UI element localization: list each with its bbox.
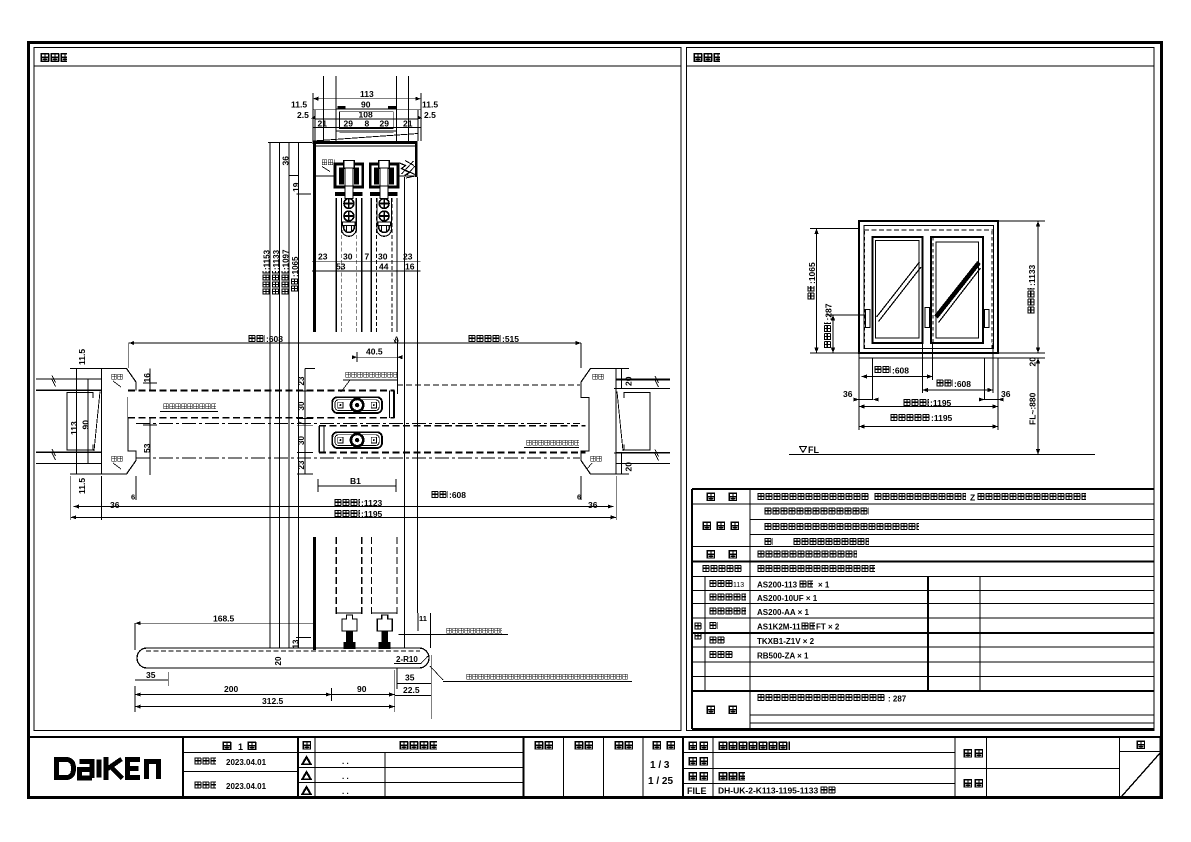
hinban row4: tobira xyxy=(709,622,840,632)
svg-text:1: 1 xyxy=(238,742,243,752)
bottom dim tobira 608 right xyxy=(431,490,466,500)
svg-text:DH-UK-2-K113-1195-1133: DH-UK-2-K113-1195-1133 xyxy=(718,786,818,796)
right jamb body xyxy=(581,369,616,475)
dim 168.5 xyxy=(135,614,313,651)
sanmenzu text xyxy=(718,772,745,781)
svg-text:6: 6 xyxy=(577,493,581,502)
door2 screw channel xyxy=(377,198,392,236)
head frame bottom edges xyxy=(316,175,415,177)
guide pin 2 xyxy=(377,615,392,649)
dim madotaka 1065 xyxy=(807,229,819,354)
svg-text:53: 53 xyxy=(142,443,152,453)
svg-text:× 1: × 1 xyxy=(818,581,830,590)
kaitei rireki header xyxy=(399,741,437,750)
extension lines right xyxy=(998,221,1045,358)
counter edge line below window xyxy=(859,357,998,359)
svg-text:53: 53 xyxy=(336,262,346,272)
right roller assembly xyxy=(370,161,398,188)
seitei-bi 2023.04.01 xyxy=(194,757,267,767)
dim 108 xyxy=(315,110,418,142)
right dims 20 20 xyxy=(614,369,634,475)
svg-text::1133: :1133 xyxy=(272,249,281,270)
gaiho-taka 1133 label xyxy=(272,249,282,295)
svg-text:11.5: 11.5 xyxy=(422,100,438,110)
svg-text:Z: Z xyxy=(970,493,975,503)
counter content xyxy=(757,565,875,574)
svg-text:2023.04.01: 2023.04.01 xyxy=(226,758,267,767)
svg-text:16: 16 xyxy=(142,373,152,383)
upper track dashed continuation xyxy=(397,384,580,386)
counter slab xyxy=(137,648,429,668)
dim 13 xyxy=(292,637,312,648)
left wall stud xyxy=(67,392,100,452)
svg-text:11.5: 11.5 xyxy=(291,100,307,110)
left door glazing diagonals xyxy=(877,262,922,322)
keishiki content xyxy=(757,493,869,501)
kenzu header xyxy=(574,741,593,750)
row: counter label xyxy=(702,565,742,574)
svg-text::1195: :1195 xyxy=(930,398,952,408)
totte content xyxy=(757,550,857,559)
dim 35 left xyxy=(135,670,168,686)
svg-text:36: 36 xyxy=(1001,389,1011,399)
dim 11.5 labels xyxy=(291,100,438,110)
svg-text:AS200-AA × 1: AS200-AA × 1 xyxy=(757,608,810,617)
svg-text:35: 35 xyxy=(405,673,415,683)
svg-text:21: 21 xyxy=(403,119,413,129)
right door xyxy=(931,237,983,343)
zumei label xyxy=(688,772,708,781)
svg-text::515: :515 xyxy=(502,334,519,344)
svg-text:20: 20 xyxy=(1028,357,1038,367)
track centerline dash-dot xyxy=(136,422,580,424)
left jamb body xyxy=(102,369,137,475)
lower strip door dashes xyxy=(336,537,397,615)
dim 22.5 xyxy=(395,655,432,719)
top wall lines right pair xyxy=(397,76,409,142)
svg-text:30: 30 xyxy=(343,252,353,262)
svg-text:23: 23 xyxy=(318,252,328,262)
vertical thickness dim line xyxy=(297,369,315,475)
row: totte label xyxy=(706,550,737,559)
dim 11 guide xyxy=(418,613,431,648)
hinban row6: akarichigai xyxy=(709,651,809,661)
svg-text:A: A xyxy=(394,337,399,344)
svg-text::608: :608 xyxy=(892,366,909,376)
door1 verticals upper xyxy=(336,198,362,332)
frame right head edge xyxy=(415,142,418,177)
2-R10 label xyxy=(394,655,428,664)
A-men leader label xyxy=(341,337,399,393)
svg-text::1065: :1065 xyxy=(807,262,817,284)
title block outer xyxy=(27,737,1162,798)
right wall stud xyxy=(617,392,650,452)
bikou label xyxy=(706,705,737,714)
svg-text::1153: :1153 xyxy=(263,249,272,270)
dim 90 bottom xyxy=(331,684,394,701)
lower lock plate xyxy=(332,432,382,448)
left door xyxy=(865,231,992,348)
svg-text:FT × 2: FT × 2 xyxy=(816,623,840,632)
dim tobira-haba 608 right xyxy=(923,379,994,392)
svg-text:30: 30 xyxy=(378,252,388,262)
svg-text:. .: . . xyxy=(342,757,349,766)
svg-text:2-R10: 2-R10 xyxy=(396,655,418,664)
svg-text:312.5: 312.5 xyxy=(262,696,284,706)
door2 top cap xyxy=(370,186,398,199)
extension lines left xyxy=(810,229,866,354)
svg-text:13: 13 xyxy=(292,639,301,648)
hinban row1: koteiwaku 113 xyxy=(709,580,830,590)
5tPP cap label lower xyxy=(524,440,579,448)
left jamb dims 11.5 113 90 xyxy=(69,349,101,494)
kenmei label xyxy=(963,749,983,758)
han column header xyxy=(302,741,311,750)
hinban label xyxy=(688,757,708,766)
dim 200 xyxy=(135,684,331,697)
dim wakugai-haba 1195 xyxy=(71,509,617,519)
svg-text:2.5: 2.5 xyxy=(297,110,309,120)
right wall lines xyxy=(616,380,670,464)
svg-text:RB500-ZA × 1: RB500-ZA × 1 xyxy=(757,652,809,661)
svg-text:20: 20 xyxy=(274,656,283,665)
dim 40.5 xyxy=(352,338,402,394)
left wall lines xyxy=(36,379,101,464)
bikou content miwa lock xyxy=(757,694,907,704)
page diagonal xyxy=(1122,753,1161,797)
window outer frame xyxy=(859,221,998,353)
door1 top cap xyxy=(335,186,363,199)
dim 20 xyxy=(1028,357,1038,367)
right frame thin verticals xyxy=(405,177,418,648)
hinban row3: counter xyxy=(709,607,810,617)
extension lines bottom xyxy=(859,343,998,430)
svg-text:. .: . . xyxy=(342,772,349,781)
upper door band edges xyxy=(128,391,395,418)
meisho label xyxy=(688,741,708,750)
C2 label on head frame xyxy=(322,159,335,172)
svg-text::1195: :1195 xyxy=(931,413,953,423)
svg-text:44: 44 xyxy=(379,262,389,272)
svg-text:168.5: 168.5 xyxy=(213,614,235,624)
dim 20 counter xyxy=(274,656,283,665)
svg-text:90: 90 xyxy=(357,684,367,694)
svg-text:B1: B1 xyxy=(350,476,361,486)
hinban vertical label xyxy=(694,622,702,640)
kaitei-bi 2023.04.01 xyxy=(194,781,267,791)
svg-text:35: 35 xyxy=(146,670,156,680)
scale 1/3 1/25 xyxy=(648,760,673,787)
svg-text:22.5: 22.5 xyxy=(403,685,420,695)
dot rows xyxy=(342,757,349,796)
left jamb C2 R2 labels xyxy=(111,374,123,470)
dim 2.5 labels xyxy=(297,110,436,120)
svg-text:6: 6 xyxy=(131,493,135,502)
svg-text:90: 90 xyxy=(81,420,91,430)
dim 19 xyxy=(291,182,311,194)
sakusei header xyxy=(614,741,633,750)
page label xyxy=(1136,740,1145,749)
svg-text:29: 29 xyxy=(344,119,354,129)
dim tobira-haba 608 left xyxy=(862,366,933,379)
dim naiho-haba 1123 xyxy=(73,493,613,511)
section break diagonal xyxy=(313,134,418,142)
mid-section bottom extension lines xyxy=(71,476,617,520)
omoiyari series text xyxy=(718,741,790,750)
wall break marks xyxy=(52,376,659,461)
mado-taka 1065 label xyxy=(291,256,301,292)
svg-text::608: :608 xyxy=(954,379,971,389)
track dashed line xyxy=(864,229,993,231)
svg-text:11.5: 11.5 xyxy=(77,478,87,494)
right door glazing diagonals xyxy=(936,263,981,323)
head right bracket detail xyxy=(400,161,416,179)
svg-text::1195: :1195 xyxy=(361,509,383,519)
left panel title DANMENZU xyxy=(40,53,67,63)
wakugai-taka 1153 label xyxy=(262,249,272,295)
dim row 23 30 7 30 23 xyxy=(312,252,421,262)
title block row lines xyxy=(183,752,1161,784)
four vertical height dim lines xyxy=(268,142,312,648)
top wall lines left pair xyxy=(323,76,336,142)
svg-text:1 / 3: 1 / 3 xyxy=(650,760,670,771)
naiho-taka 1097 label xyxy=(281,249,291,295)
svg-text:20: 20 xyxy=(624,462,634,472)
dim wakugai-taka 1133 xyxy=(1027,221,1040,353)
pull handles xyxy=(866,308,989,328)
counter material label xyxy=(430,666,632,682)
dim 36 left xyxy=(843,389,879,402)
svg-text:TKXB1-Z1V × 2: TKXB1-Z1V × 2 xyxy=(757,637,815,646)
lower door band white fill xyxy=(319,426,586,453)
upper lock plate xyxy=(332,397,382,413)
svg-text::608: :608 xyxy=(266,334,283,344)
svg-text:AS200-113: AS200-113 xyxy=(757,581,798,590)
spec table frame xyxy=(692,489,1154,729)
dim hikite-taka 287 xyxy=(824,303,836,353)
dim 35 right xyxy=(397,668,431,689)
shiage row3 waku olefin xyxy=(764,538,869,547)
5tPP cap label upper xyxy=(160,403,218,412)
svg-text:29: 29 xyxy=(380,119,390,129)
svg-text:AS1K2M-11: AS1K2M-11 xyxy=(757,623,801,632)
svg-text:: 287: : 287 xyxy=(888,695,907,704)
spec table columns xyxy=(705,489,980,729)
svg-text:90: 90 xyxy=(361,100,371,110)
svg-text:8: 8 xyxy=(365,119,370,129)
svg-text:36: 36 xyxy=(588,500,598,510)
left roller assembly xyxy=(335,161,363,188)
rev table: DAI 1 HAN header xyxy=(222,741,257,752)
door2 verticals upper xyxy=(371,198,397,332)
hinban row5: totte xyxy=(709,636,815,646)
dim FL 880 xyxy=(1028,358,1041,455)
warning triangles xyxy=(301,755,312,795)
dim row 53 44 16 xyxy=(312,262,421,272)
dim counter-haba 1195 xyxy=(859,413,998,429)
hinban row2: rail set xyxy=(709,593,818,603)
door1 screws xyxy=(343,199,356,233)
shukushaku header xyxy=(652,741,675,750)
svg-text:2023.04.01: 2023.04.01 xyxy=(226,782,267,791)
sejyu label xyxy=(963,779,983,788)
svg-text:200: 200 xyxy=(224,684,238,694)
dim 113 top xyxy=(313,89,421,141)
svg-text:113: 113 xyxy=(733,582,744,589)
svg-text:1 / 25: 1 / 25 xyxy=(648,776,673,787)
dim wakugai-haba 1195 xyxy=(859,398,998,409)
svg-text::1065: :1065 xyxy=(291,256,300,277)
row: keishiki label xyxy=(706,492,737,501)
right panel frame xyxy=(687,48,1155,731)
svg-text:FL~:880: FL~:880 xyxy=(1028,392,1038,425)
svg-text:. .: . . xyxy=(342,787,349,796)
dim 312.5 xyxy=(135,670,395,712)
svg-text::1123: :1123 xyxy=(361,498,383,508)
row: shiage label xyxy=(702,521,739,530)
svg-text:113: 113 xyxy=(360,89,374,99)
svg-text:2.5: 2.5 xyxy=(424,110,436,120)
right jamb C2 R2 labels xyxy=(587,374,604,470)
shiage row2 glass xyxy=(764,523,919,532)
svg-text:40.5: 40.5 xyxy=(366,347,383,357)
left panel frame xyxy=(34,48,681,731)
upper rail band dims 16 44 53 xyxy=(142,369,157,476)
door bottom rails xyxy=(336,612,397,614)
lower centerline dash-dot xyxy=(136,457,580,459)
svg-text:16: 16 xyxy=(405,262,415,272)
FL line xyxy=(789,445,1095,455)
svg-text:19: 19 xyxy=(291,182,301,192)
dim 36 right xyxy=(979,389,1011,402)
svg-text:113: 113 xyxy=(69,421,79,435)
svg-text:36: 36 xyxy=(110,500,120,510)
dim 36 head xyxy=(281,156,300,176)
dim row 21 29 8 29 21 xyxy=(313,119,421,129)
svg-text:FL: FL xyxy=(808,445,819,455)
svg-text:11.5: 11.5 xyxy=(77,349,87,365)
svg-text:7: 7 xyxy=(365,252,370,262)
upper door band white fill xyxy=(128,391,395,418)
head frame top bar xyxy=(313,142,418,146)
svg-text:21: 21 xyxy=(318,119,328,129)
svg-text::608: :608 xyxy=(449,490,466,500)
svg-text:11: 11 xyxy=(419,614,427,623)
svg-text:FILE: FILE xyxy=(687,786,707,796)
svg-text::287: :287 xyxy=(824,303,834,320)
DAIKEN logo xyxy=(57,757,159,780)
track box top xyxy=(336,109,397,133)
guide pin 1 xyxy=(342,615,357,649)
shiage row1 panel olefin xyxy=(764,507,869,516)
frame left jamb thick line xyxy=(313,142,316,332)
svg-text::1097: :1097 xyxy=(282,249,291,270)
svg-text::1133: :1133 xyxy=(1027,264,1037,286)
spec table rows xyxy=(692,504,1154,723)
svg-text:AS200-10UF × 1: AS200-10UF × 1 xyxy=(757,594,818,603)
svg-text:20: 20 xyxy=(624,376,634,386)
svg-text:36: 36 xyxy=(843,389,853,399)
title block verticals xyxy=(183,737,1120,798)
top dim line tobira 608 / yuko-kaiko 515 xyxy=(129,334,581,368)
bottom dim B1 xyxy=(318,476,396,492)
door1 screw channel xyxy=(342,198,357,236)
shonin header xyxy=(534,741,553,750)
guide pin leader xyxy=(399,628,508,635)
door2 screws xyxy=(378,199,391,233)
right panel title SHOMENZU xyxy=(693,53,720,63)
lower door band edges xyxy=(319,426,586,453)
dim 90 xyxy=(313,100,421,110)
